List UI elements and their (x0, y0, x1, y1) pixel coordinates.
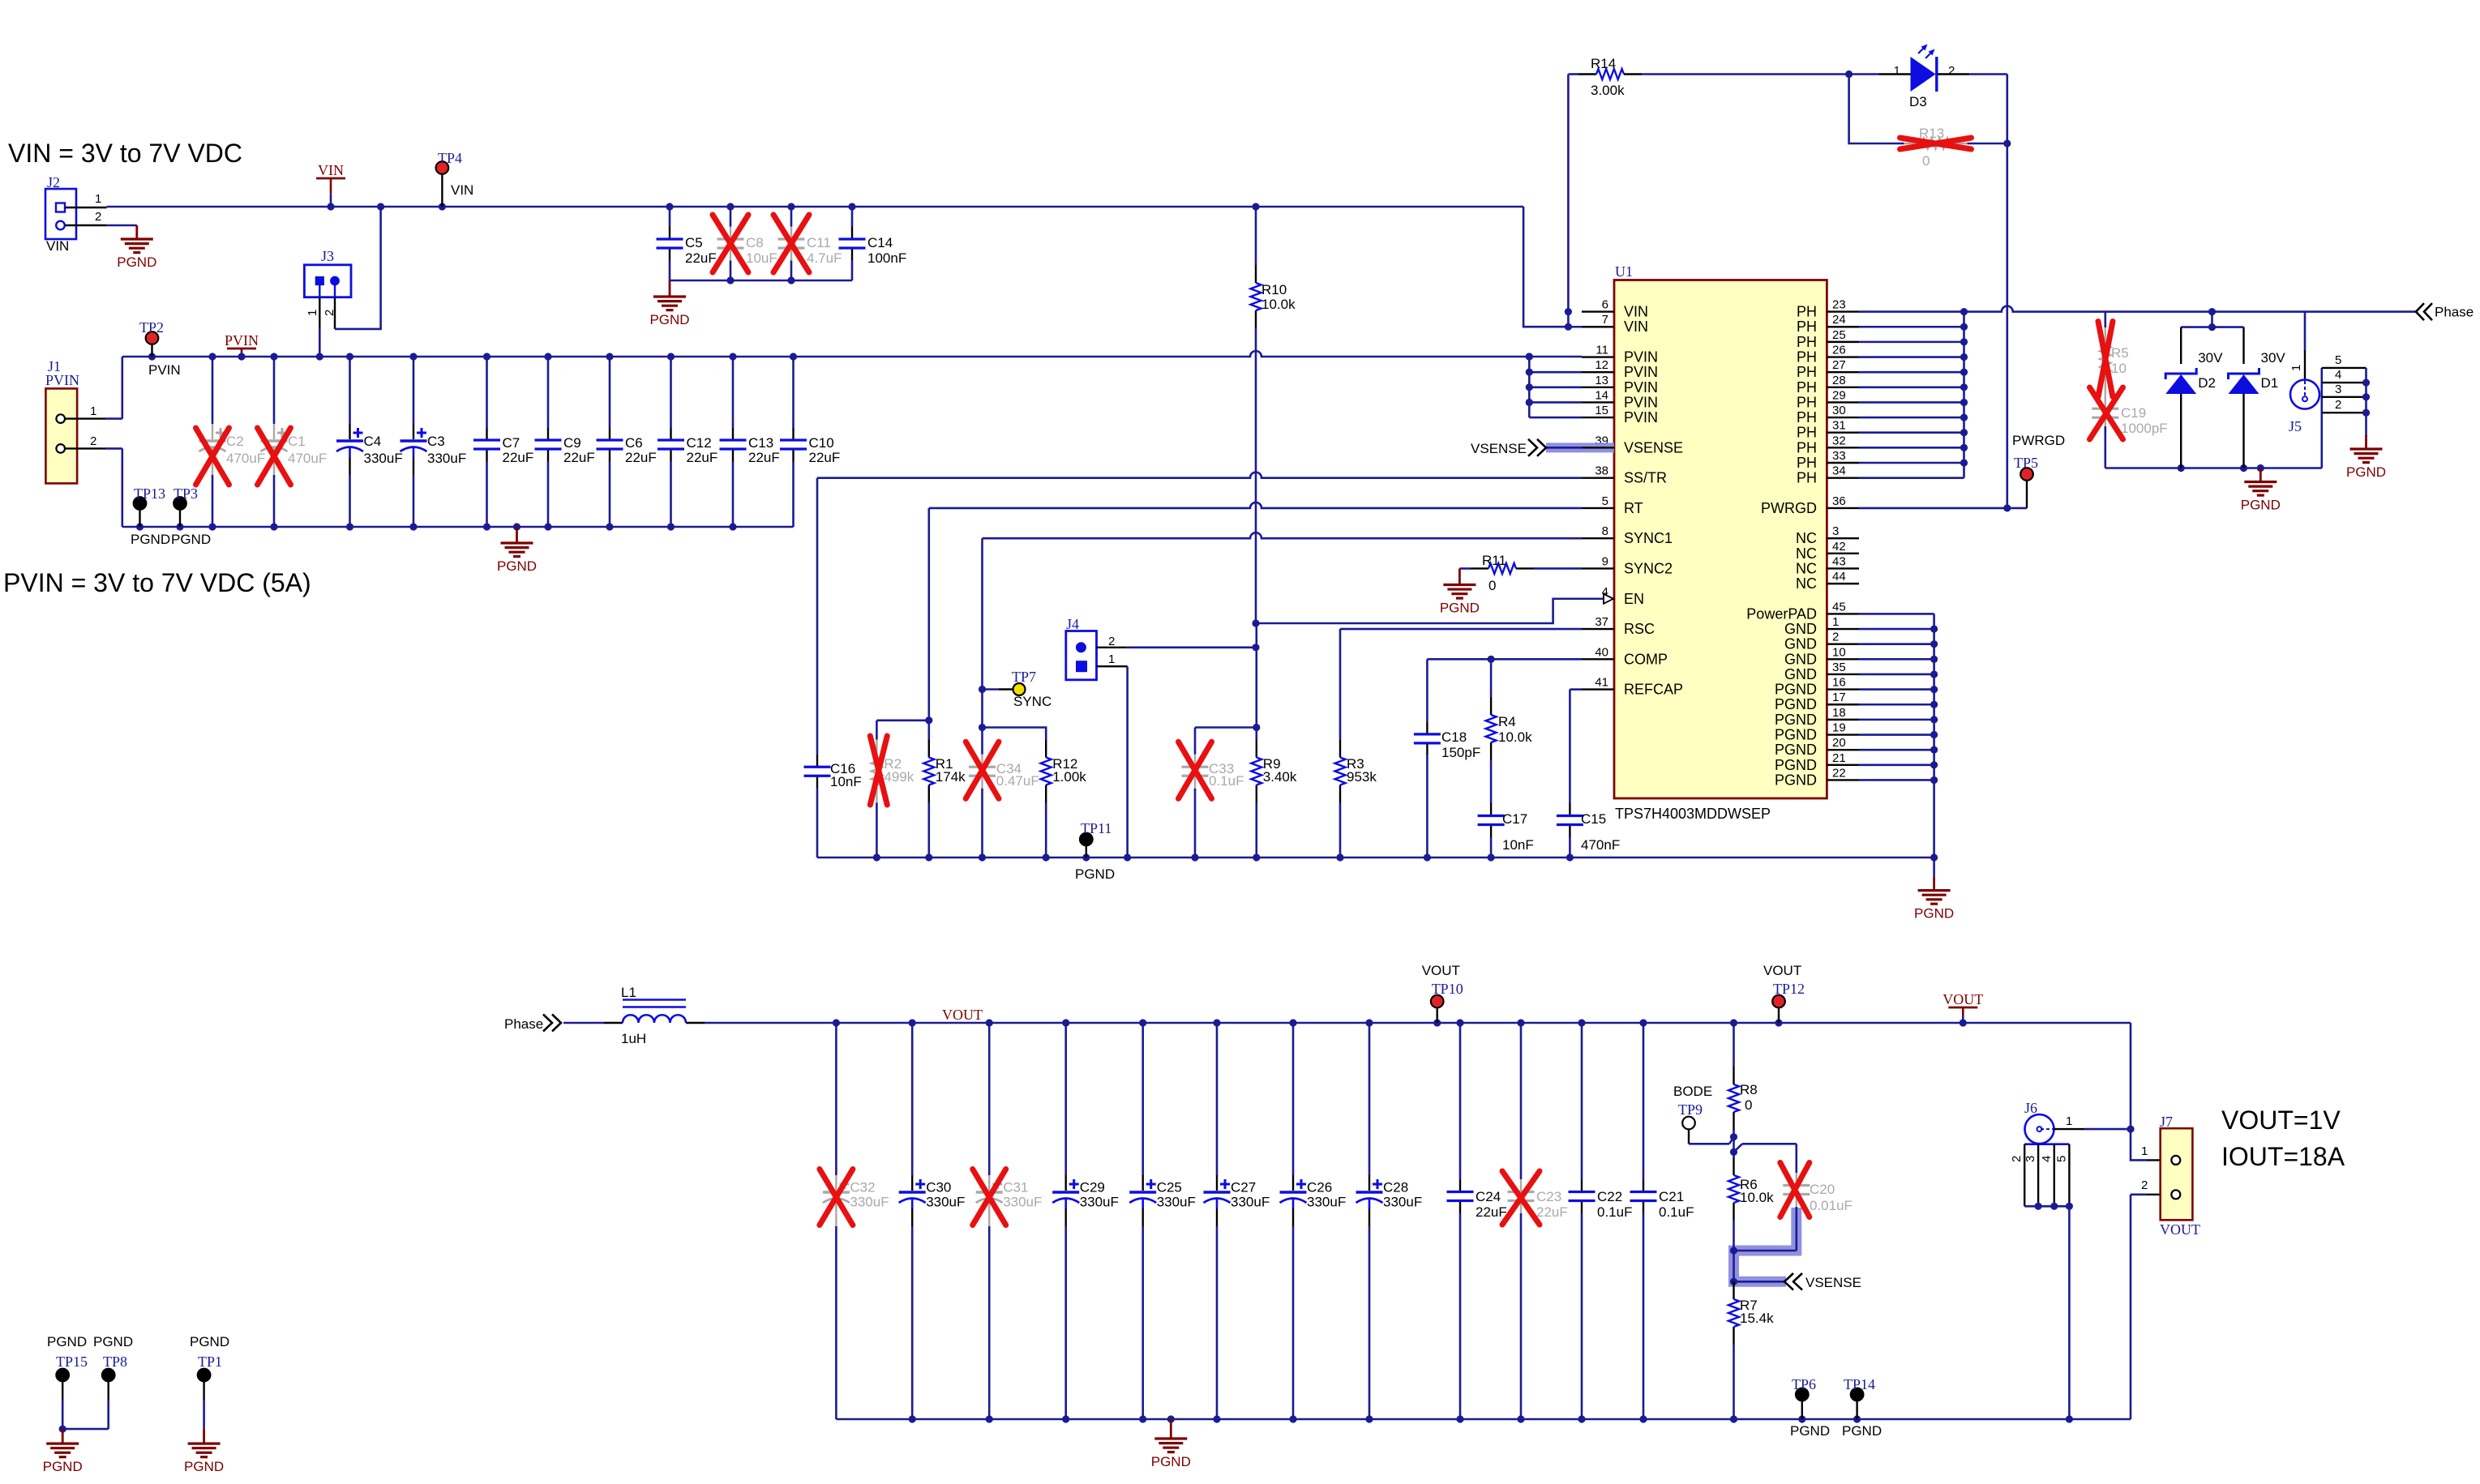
svg-text:D3: D3 (1909, 94, 1927, 109)
svg-text:PH: PH (1797, 394, 1817, 410)
svg-text:330uF: 330uF (1307, 1195, 1346, 1210)
svg-text:C32: C32 (850, 1180, 875, 1195)
svg-text:4: 4 (2040, 1156, 2054, 1162)
svg-text:24: 24 (1832, 313, 1846, 327)
svg-text:VSENSE: VSENSE (1624, 439, 1683, 455)
svg-text:TP15: TP15 (56, 1354, 88, 1370)
svg-text:PGND: PGND (2346, 464, 2386, 480)
svg-text:R8: R8 (1740, 1082, 1758, 1097)
svg-text:TP2: TP2 (139, 319, 164, 336)
svg-text:470uF: 470uF (226, 451, 265, 466)
svg-text:VIN: VIN (451, 182, 473, 198)
svg-text:C31: C31 (1003, 1180, 1028, 1195)
svg-text:VIN: VIN (46, 238, 69, 254)
svg-text:TP8: TP8 (103, 1354, 127, 1370)
svg-text:C22: C22 (1597, 1189, 1622, 1204)
svg-text:U1: U1 (1615, 263, 1633, 280)
svg-text:2: 2 (1108, 635, 1115, 648)
svg-text:PH: PH (1797, 319, 1817, 335)
svg-text:D1: D1 (2261, 375, 2279, 391)
svg-text:REFCAP: REFCAP (1624, 682, 1683, 698)
svg-text:PGND: PGND (131, 532, 170, 547)
svg-text:10: 10 (1832, 645, 1846, 659)
svg-text:10.0k: 10.0k (1498, 729, 1532, 745)
svg-text:22uF: 22uF (503, 450, 534, 465)
svg-text:R4: R4 (1498, 714, 1516, 729)
svg-text:SYNC: SYNC (1013, 694, 1052, 709)
svg-text:R14: R14 (1591, 56, 1616, 71)
svg-text:C12: C12 (687, 435, 712, 451)
svg-text:VOUT: VOUT (1422, 963, 1460, 978)
svg-text:41: 41 (1595, 676, 1608, 690)
svg-text:R5: R5 (2111, 345, 2129, 361)
svg-text:TP7: TP7 (1012, 669, 1036, 685)
svg-text:C14: C14 (867, 235, 893, 250)
svg-text:C20: C20 (1810, 1182, 1835, 1197)
svg-text:2: 2 (2010, 1156, 2024, 1162)
svg-text:470nF: 470nF (1581, 837, 1620, 853)
svg-text:2: 2 (95, 210, 101, 224)
svg-text:PGND: PGND (2241, 498, 2281, 513)
svg-text:330uF: 330uF (850, 1195, 889, 1210)
svg-text:J3: J3 (321, 248, 334, 264)
svg-text:PH: PH (1797, 425, 1817, 441)
svg-text:40: 40 (1595, 645, 1608, 659)
svg-text:499k: 499k (884, 769, 914, 785)
svg-text:TP6: TP6 (1792, 1376, 1816, 1392)
svg-text:953k: 953k (1347, 769, 1377, 785)
svg-text:1: 1 (1894, 64, 1900, 78)
svg-text:PGND: PGND (1775, 772, 1817, 788)
svg-text:4: 4 (2335, 368, 2341, 382)
svg-text:0.1uF: 0.1uF (1209, 773, 1244, 789)
svg-text:PGND: PGND (1775, 757, 1817, 773)
svg-text:R10: R10 (1261, 282, 1287, 297)
svg-text:C24: C24 (1476, 1189, 1501, 1204)
svg-text:VIN: VIN (1624, 319, 1648, 335)
svg-text:C7: C7 (503, 435, 520, 451)
svg-text:0: 0 (1745, 1097, 1752, 1113)
svg-text:C30: C30 (926, 1180, 951, 1195)
svg-text:GND: GND (1784, 651, 1817, 667)
svg-text:PGND: PGND (1151, 1454, 1191, 1469)
svg-text:VIN: VIN (1624, 304, 1648, 320)
svg-text:5: 5 (2335, 353, 2341, 367)
svg-text:38: 38 (1595, 464, 1608, 478)
svg-text:BODE: BODE (1673, 1084, 1712, 1099)
svg-text:TP4: TP4 (438, 150, 462, 166)
svg-text:22uF: 22uF (1536, 1204, 1568, 1220)
svg-text:C15: C15 (1581, 811, 1606, 827)
svg-text:13: 13 (1595, 374, 1608, 387)
svg-text:330uF: 330uF (1080, 1195, 1119, 1210)
svg-text:45: 45 (1832, 600, 1846, 614)
svg-text:C25: C25 (1157, 1180, 1182, 1195)
svg-text:EN: EN (1624, 591, 1644, 607)
svg-text:VSENSE: VSENSE (1471, 441, 1527, 456)
svg-text:PH: PH (1797, 349, 1817, 366)
svg-text:GND: GND (1784, 666, 1817, 682)
svg-text:VOUT=1V: VOUT=1V (2221, 1106, 2341, 1135)
svg-text:PGND: PGND (93, 1334, 133, 1349)
svg-text:14: 14 (1595, 388, 1608, 402)
svg-text:6: 6 (1602, 298, 1608, 312)
svg-text:C11: C11 (807, 235, 831, 250)
svg-text:3: 3 (2024, 1156, 2037, 1162)
svg-text:NC: NC (1796, 530, 1817, 546)
svg-text:1: 1 (2066, 1114, 2072, 1128)
svg-text:1: 1 (2289, 365, 2303, 371)
svg-text:C21: C21 (1659, 1189, 1684, 1204)
svg-text:22uF: 22uF (625, 450, 657, 465)
svg-text:PVIN: PVIN (45, 372, 79, 388)
svg-text:TP14: TP14 (1844, 1376, 1875, 1392)
svg-text:2: 2 (1832, 631, 1839, 644)
svg-text:330uF: 330uF (1383, 1195, 1422, 1210)
svg-text:PGND: PGND (184, 1459, 224, 1474)
svg-text:PGND: PGND (1440, 600, 1480, 615)
svg-text:174k: 174k (936, 769, 966, 785)
svg-text:PVIN: PVIN (1624, 349, 1658, 366)
svg-text:1: 1 (95, 192, 101, 206)
svg-text:SS/TR: SS/TR (1624, 470, 1667, 486)
svg-text:22uF: 22uF (809, 450, 841, 465)
svg-text:42: 42 (1832, 540, 1846, 554)
svg-text:VOUT: VOUT (2160, 1221, 2200, 1238)
svg-text:PGND: PGND (1775, 682, 1817, 698)
svg-text:44: 44 (1832, 570, 1846, 584)
svg-text:23: 23 (1832, 298, 1846, 312)
svg-text:C6: C6 (625, 435, 643, 451)
svg-text:PVIN: PVIN (1624, 364, 1658, 380)
svg-text:C5: C5 (685, 235, 703, 250)
svg-text:PH: PH (1797, 379, 1817, 396)
svg-text:17: 17 (1832, 691, 1846, 704)
svg-text:3.00k: 3.00k (1591, 83, 1625, 98)
svg-text:330uF: 330uF (926, 1195, 965, 1210)
svg-text:22uF: 22uF (748, 450, 780, 465)
svg-text:1: 1 (306, 310, 319, 316)
svg-text:11: 11 (1596, 344, 1608, 357)
svg-text:PWRGD: PWRGD (2012, 433, 2065, 448)
svg-text:8: 8 (1602, 524, 1608, 538)
svg-text:PVIN: PVIN (1624, 409, 1658, 426)
svg-text:PGND: PGND (1775, 696, 1817, 712)
svg-text:PGND: PGND (497, 558, 537, 574)
svg-text:C28: C28 (1383, 1180, 1408, 1195)
svg-text:Phase: Phase (504, 1016, 543, 1032)
svg-text:34: 34 (1832, 464, 1846, 478)
svg-text:26: 26 (1832, 344, 1846, 357)
svg-text:PGND: PGND (1790, 1423, 1830, 1439)
svg-text:20: 20 (1832, 736, 1846, 750)
svg-text:J6: J6 (2024, 1100, 2037, 1116)
svg-text:5: 5 (2054, 1156, 2068, 1162)
svg-text:3: 3 (2335, 383, 2341, 396)
svg-text:PGND: PGND (190, 1334, 229, 1349)
svg-text:330uF: 330uF (1157, 1195, 1196, 1210)
svg-text:C23: C23 (1536, 1189, 1561, 1204)
svg-text:30: 30 (1832, 404, 1846, 417)
svg-text:RT: RT (1624, 500, 1643, 516)
svg-text:27: 27 (1832, 358, 1846, 372)
svg-text:15.4k: 15.4k (1740, 1311, 1774, 1326)
svg-text:PGND: PGND (649, 312, 689, 327)
svg-text:PGND: PGND (1914, 906, 1954, 922)
svg-text:0.01uF: 0.01uF (1810, 1198, 1853, 1213)
svg-text:4.7uF: 4.7uF (807, 250, 842, 266)
svg-text:1000pF: 1000pF (2121, 421, 2168, 436)
svg-text:25: 25 (1832, 328, 1846, 342)
svg-text:NC: NC (1796, 560, 1817, 576)
svg-text:C18: C18 (1441, 729, 1467, 745)
svg-text:C17: C17 (1502, 811, 1527, 827)
svg-text:PGND: PGND (171, 532, 211, 547)
svg-text:PH: PH (1797, 439, 1817, 455)
svg-text:IOUT=18A: IOUT=18A (2221, 1142, 2345, 1171)
svg-text:TP1: TP1 (198, 1354, 222, 1370)
svg-text:PH: PH (1797, 304, 1817, 320)
svg-text:1: 1 (90, 404, 96, 418)
svg-text:43: 43 (1832, 554, 1846, 568)
svg-text:2: 2 (2335, 398, 2341, 412)
svg-text:32: 32 (1832, 434, 1846, 447)
svg-text:J2: J2 (47, 174, 60, 190)
svg-text:0: 0 (1922, 153, 1930, 169)
svg-text:C3: C3 (427, 434, 445, 449)
svg-text:VSENSE: VSENSE (1805, 1275, 1861, 1290)
svg-text:SYNC1: SYNC1 (1624, 530, 1673, 546)
svg-text:L1: L1 (621, 985, 636, 1000)
svg-text:PH: PH (1797, 470, 1817, 486)
svg-text:PH: PH (1797, 364, 1817, 380)
svg-text:10uF: 10uF (746, 250, 777, 266)
svg-text:PGND: PGND (1075, 866, 1115, 882)
svg-text:PH: PH (1797, 409, 1817, 426)
svg-text:PGND: PGND (1775, 712, 1817, 728)
svg-text:TP5: TP5 (2014, 455, 2038, 471)
svg-text:7: 7 (1602, 313, 1608, 327)
svg-text:35: 35 (1832, 661, 1846, 674)
svg-text:C9: C9 (563, 435, 581, 451)
svg-text:22uF: 22uF (687, 450, 718, 465)
svg-text:C1: C1 (288, 434, 306, 449)
svg-text:PVIN: PVIN (148, 362, 181, 378)
svg-text:TP9: TP9 (1678, 1101, 1703, 1118)
svg-text:PVIN: PVIN (225, 332, 259, 349)
svg-text:3.40k: 3.40k (1263, 769, 1297, 785)
svg-text:19: 19 (1832, 721, 1846, 735)
svg-text:30V: 30V (2261, 350, 2286, 366)
svg-text:22uF: 22uF (563, 450, 595, 465)
svg-text:12: 12 (1595, 358, 1608, 372)
svg-text:Phase: Phase (2435, 305, 2474, 320)
svg-text:C26: C26 (1307, 1180, 1332, 1195)
svg-text:3: 3 (1832, 524, 1839, 538)
svg-text:31: 31 (1832, 419, 1846, 433)
svg-text:VOUT: VOUT (1763, 963, 1801, 978)
svg-text:330uF: 330uF (427, 451, 466, 466)
svg-text:150pF: 150pF (1441, 745, 1480, 760)
svg-text:0.47uF: 0.47uF (996, 773, 1039, 789)
svg-text:RSC: RSC (1624, 621, 1655, 637)
svg-text:22uF: 22uF (1476, 1204, 1507, 1220)
svg-text:C29: C29 (1080, 1180, 1105, 1195)
svg-text:10nF: 10nF (830, 774, 862, 789)
svg-text:470uF: 470uF (288, 451, 327, 466)
svg-text:10: 10 (2111, 361, 2127, 376)
svg-text:C2: C2 (226, 434, 244, 449)
svg-text:C13: C13 (748, 435, 773, 451)
svg-text:30V: 30V (2198, 350, 2223, 366)
svg-text:29: 29 (1832, 388, 1846, 402)
svg-text:VOUT: VOUT (1942, 991, 1983, 1007)
svg-text:SYNC2: SYNC2 (1624, 560, 1673, 576)
svg-text:NC: NC (1796, 575, 1817, 592)
svg-text:PWRGD: PWRGD (1761, 500, 1817, 516)
svg-text:VIN: VIN (318, 162, 344, 178)
svg-text:J4: J4 (1066, 616, 1079, 632)
svg-text:NC: NC (1796, 545, 1817, 562)
svg-text:PGND: PGND (1775, 727, 1817, 743)
svg-text:1: 1 (1108, 652, 1115, 666)
svg-text:33: 33 (1832, 449, 1846, 463)
svg-text:37: 37 (1595, 615, 1608, 629)
svg-text:C27: C27 (1231, 1180, 1256, 1195)
svg-text:330uF: 330uF (364, 451, 403, 466)
svg-text:10nF: 10nF (1502, 837, 1534, 853)
svg-text:PH: PH (1797, 455, 1817, 471)
svg-text:28: 28 (1832, 374, 1846, 387)
svg-text:C4: C4 (364, 434, 382, 449)
svg-text:21: 21 (1832, 751, 1846, 765)
svg-text:TP11: TP11 (1081, 820, 1112, 836)
svg-text:100nF: 100nF (867, 250, 906, 266)
svg-text:TP10: TP10 (1432, 981, 1463, 997)
svg-text:GND: GND (1784, 621, 1817, 637)
svg-text:PowerPAD: PowerPAD (1746, 605, 1817, 622)
svg-text:TP12: TP12 (1773, 981, 1805, 997)
svg-text:VIN = 3V to 7V VDC: VIN = 3V to 7V VDC (8, 139, 242, 168)
svg-text:0: 0 (1488, 578, 1496, 593)
svg-text:1.00k: 1.00k (1052, 769, 1086, 785)
svg-text:330uF: 330uF (1231, 1195, 1270, 1210)
svg-text:16: 16 (1832, 676, 1846, 690)
svg-text:5: 5 (1602, 494, 1608, 508)
svg-text:2: 2 (2141, 1178, 2148, 1192)
svg-text:1: 1 (1832, 615, 1839, 629)
svg-text:GND: GND (1784, 636, 1817, 652)
svg-text:PGND: PGND (47, 1334, 87, 1349)
svg-text:0.1uF: 0.1uF (1597, 1204, 1632, 1220)
svg-text:18: 18 (1832, 706, 1846, 720)
svg-text:PGND: PGND (1842, 1423, 1882, 1439)
svg-text:15: 15 (1595, 404, 1608, 417)
svg-text:22uF: 22uF (685, 250, 717, 266)
svg-text:PGND: PGND (43, 1459, 83, 1474)
svg-text:R11: R11 (1482, 553, 1506, 568)
svg-text:COMP: COMP (1624, 651, 1668, 667)
svg-text:PVIN: PVIN (1624, 379, 1658, 396)
svg-text:2: 2 (323, 310, 336, 316)
svg-text:36: 36 (1832, 494, 1846, 508)
svg-text:1: 1 (2141, 1144, 2148, 1158)
svg-text:2: 2 (1948, 64, 1955, 78)
svg-text:C10: C10 (809, 435, 834, 451)
svg-text:22: 22 (1832, 766, 1846, 780)
svg-text:C8: C8 (746, 235, 764, 250)
svg-text:PVIN = 3V to 7V VDC (5A): PVIN = 3V to 7V VDC (5A) (3, 568, 311, 597)
svg-text:J7: J7 (2160, 1114, 2173, 1130)
svg-text:PVIN: PVIN (1624, 394, 1658, 410)
svg-text:10.0k: 10.0k (1261, 297, 1296, 312)
svg-text:9: 9 (1602, 554, 1608, 568)
svg-text:0.1uF: 0.1uF (1659, 1204, 1694, 1220)
svg-text:D2: D2 (2198, 375, 2216, 391)
svg-text:VOUT: VOUT (942, 1007, 983, 1023)
svg-text:TP3: TP3 (173, 485, 198, 502)
svg-text:J5: J5 (2289, 418, 2302, 434)
svg-text:PGND: PGND (117, 254, 156, 270)
svg-text:10.0k: 10.0k (1740, 1190, 1774, 1205)
svg-text:1uH: 1uH (621, 1031, 646, 1046)
svg-text:PGND: PGND (1775, 742, 1817, 758)
svg-text:TP13: TP13 (134, 485, 165, 502)
svg-text:PH: PH (1797, 334, 1817, 350)
svg-text:2: 2 (90, 434, 96, 448)
svg-text:330uF: 330uF (1003, 1195, 1042, 1210)
svg-text:TPS7H4003MDDWSEP: TPS7H4003MDDWSEP (1615, 806, 1771, 822)
svg-text:C19: C19 (2121, 405, 2146, 421)
